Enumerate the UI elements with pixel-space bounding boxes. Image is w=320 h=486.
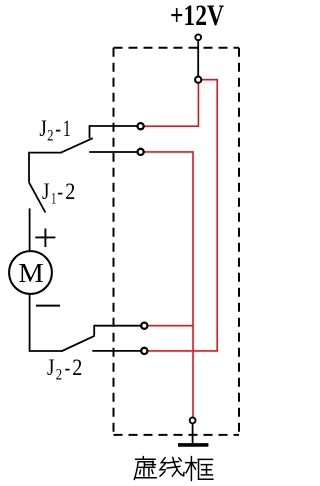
terminal +12V [195,34,201,40]
label J1-2 [42,179,75,207]
wire red B: +12V junction to J2-2 lower contact [148,80,217,351]
caption 虚线框 (drawn glyph: 虚) [134,457,156,480]
svg-text:2: 2 [47,128,53,145]
switch J2-1 lever [61,138,93,152]
ground stem wire [192,424,194,443]
svg-text:J: J [42,179,49,204]
polarity plus mark [35,229,55,248]
switch J2-2 upper contact [94,325,141,336]
svg-text:M: M [18,258,43,288]
polarity minus mark [36,305,60,307]
svg-text:-: - [55,116,61,141]
motor M circle [9,251,52,294]
terminal J2-1 upper [138,123,144,129]
switch J2-1 lower contact [89,151,137,153]
wire: +12V terminal to junction [197,41,199,76]
wire: J2-1 common [29,152,62,154]
caption 虚线框 (drawn glyph: 框) [186,457,213,481]
svg-text:+12V: +12V [170,0,224,32]
wire: left rail J2-1 to J1-2 [28,152,30,183]
node: junction circle [195,77,201,83]
switch J1-2 lever [29,182,45,212]
ground terminal circle [190,418,196,424]
svg-text:1: 1 [63,116,71,141]
dashed box (relay enclosure) [114,48,240,435]
wire red C: J2-1 lower contact to ground [144,152,193,417]
svg-text:2: 2 [72,355,82,380]
terminal J2-2 lower [141,348,147,354]
terminal J2-1 lower [138,149,144,155]
svg-text:2: 2 [56,366,62,383]
label J2-1 [39,116,70,144]
svg-text:-: - [65,355,71,380]
caption 虚线框 (drawn glyph: 线) [160,457,184,476]
svg-text:1: 1 [51,190,56,207]
wire red A: +12V junction to J2-1 upper contact [144,84,198,127]
wire: J1-2 lower contact to motor [29,208,31,251]
svg-text:-: - [57,179,63,204]
switch J2-2 lower contact [92,350,140,352]
switch J2-1 upper contact [90,125,138,138]
label J2-2 [47,355,82,383]
ground bar [178,443,208,447]
svg-text:J: J [47,355,54,380]
terminal J2-2 upper [141,323,147,329]
wire: motor to J2-2 common [30,294,63,351]
svg-text:2: 2 [65,179,75,204]
switch J2-2 lever [62,336,95,351]
svg-text:J: J [39,116,46,141]
wire red D: J2-2 upper contact to ground rail [148,325,193,327]
